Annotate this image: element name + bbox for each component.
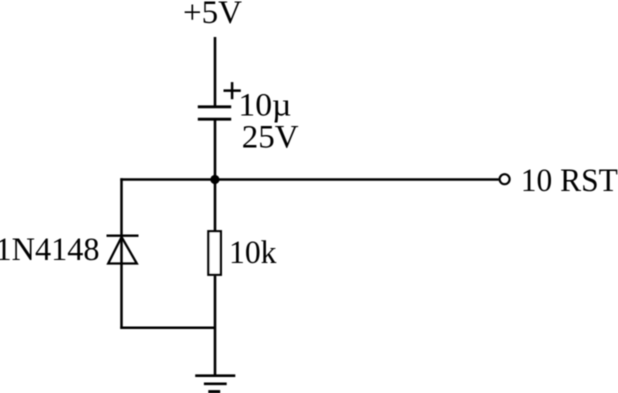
wire resistor R1 to ground	[214, 276, 217, 376]
diode D1 triangle	[108, 237, 137, 264]
capacitor C1 top plate	[198, 105, 231, 108]
node A junction dot	[210, 175, 219, 184]
svg-text:10 RST: 10 RST	[521, 163, 618, 199]
wire left branch bottom to resistor branch	[120, 326, 215, 329]
wire node A to left branch top	[120, 178, 215, 181]
ground symbol top bar	[195, 374, 235, 377]
svg-text:25V: 25V	[242, 120, 299, 156]
svg-text:+5V: +5V	[183, 0, 242, 31]
svg-text:1N4148: 1N4148	[0, 232, 100, 268]
capacitor C1 polarity plus sign	[224, 82, 241, 99]
capacitor C1 bottom plate	[198, 118, 231, 121]
output terminal open circle	[500, 174, 510, 184]
wire from +5V to capacitor C1 top plate	[214, 37, 217, 107]
wire left branch vertical through diode D1	[120, 178, 123, 329]
wire from capacitor C1 to node A and resistor R1	[214, 119, 217, 231]
ground symbol middle bar	[204, 382, 227, 385]
svg-text:10µ: 10µ	[238, 88, 291, 124]
wire node A to output terminal	[215, 178, 499, 181]
ground symbol bottom bar	[208, 390, 220, 393]
diode D1 cathode bar	[107, 234, 139, 236]
resistor R1 body	[208, 231, 220, 274]
svg-text:10k: 10k	[229, 235, 277, 271]
